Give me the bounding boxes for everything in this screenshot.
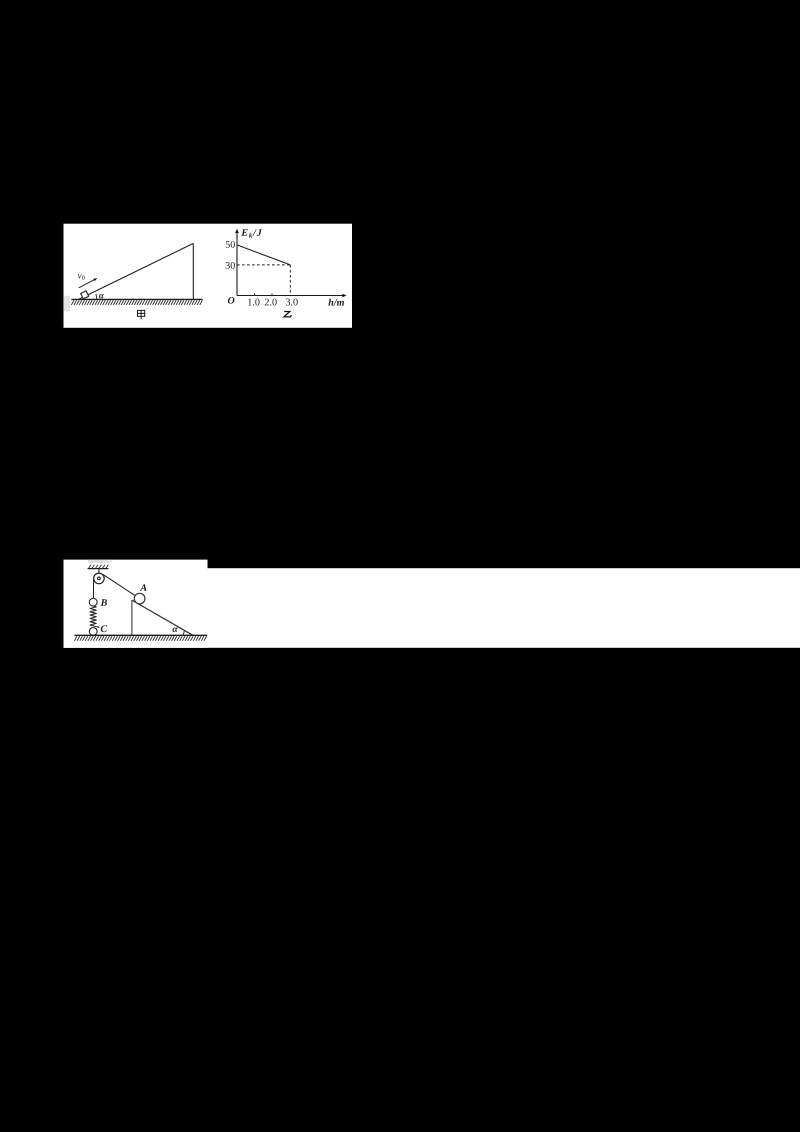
figure panel 2 (white) bbox=[64, 560, 208, 648]
v0 velocity arrow bbox=[79, 280, 95, 288]
graph y-axis bbox=[236, 231, 238, 296]
grey scan smudge fig1 left bbox=[64, 296, 70, 312]
svg-text:B: B bbox=[100, 598, 108, 609]
tick 2.0 bbox=[271, 294, 273, 296]
ball A bbox=[134, 593, 145, 604]
ball B bbox=[89, 598, 97, 606]
caption jia (first) bbox=[138, 310, 145, 319]
graph x-axis bbox=[237, 295, 344, 297]
figure panel 1 (white) bbox=[64, 224, 353, 328]
angle arc fig2 bbox=[183, 630, 184, 635]
svg-text:O: O bbox=[227, 296, 234, 307]
dashed vertical at 3.0 bbox=[289, 265, 291, 296]
block on incline bbox=[81, 291, 89, 299]
svg-text:h/m: h/m bbox=[328, 298, 344, 309]
svg-text:C: C bbox=[100, 624, 107, 635]
ceiling hatching bbox=[89, 565, 109, 569]
dashed horizontal at 30 bbox=[237, 264, 290, 266]
string left (pulley to B) bbox=[93, 578, 95, 598]
incline right vertical fig1 bbox=[192, 243, 194, 299]
svg-text:2.0: 2.0 bbox=[264, 297, 277, 308]
spring between B and C bbox=[90, 606, 99, 628]
angle arc fig1 bbox=[95, 294, 98, 300]
svg-text:A: A bbox=[139, 583, 147, 594]
ground line fig2 bbox=[75, 634, 208, 636]
ball C bbox=[89, 628, 97, 636]
svg-text:50: 50 bbox=[225, 240, 235, 251]
pulley wheel bbox=[94, 573, 105, 584]
svg-text:α: α bbox=[172, 625, 178, 635]
caption yi (second) bbox=[284, 312, 292, 317]
ceiling line fig2 bbox=[88, 568, 109, 570]
svg-text:3.0: 3.0 bbox=[285, 297, 298, 308]
svg-text:1.0: 1.0 bbox=[247, 297, 260, 308]
grey scan smudge fig2 top bbox=[88, 560, 104, 563]
ground hatching fig2 bbox=[74, 636, 206, 641]
incline vertical fig2 bbox=[131, 600, 133, 635]
incline hypotenuse fig1 bbox=[79, 243, 194, 299]
svg-text:30: 30 bbox=[225, 261, 235, 272]
pulley hanger bbox=[98, 569, 100, 574]
ground hatching fig1 bbox=[71, 300, 202, 305]
pulley axle bbox=[98, 577, 101, 580]
string right (pulley to A) bbox=[103, 574, 135, 595]
incline hypotenuse fig2 bbox=[132, 600, 193, 635]
ground line fig1 bbox=[71, 298, 202, 300]
sloping Ek line bbox=[237, 245, 290, 265]
tick 1.0 bbox=[254, 294, 256, 296]
white text band (figure 2 row) bbox=[64, 568, 800, 648]
